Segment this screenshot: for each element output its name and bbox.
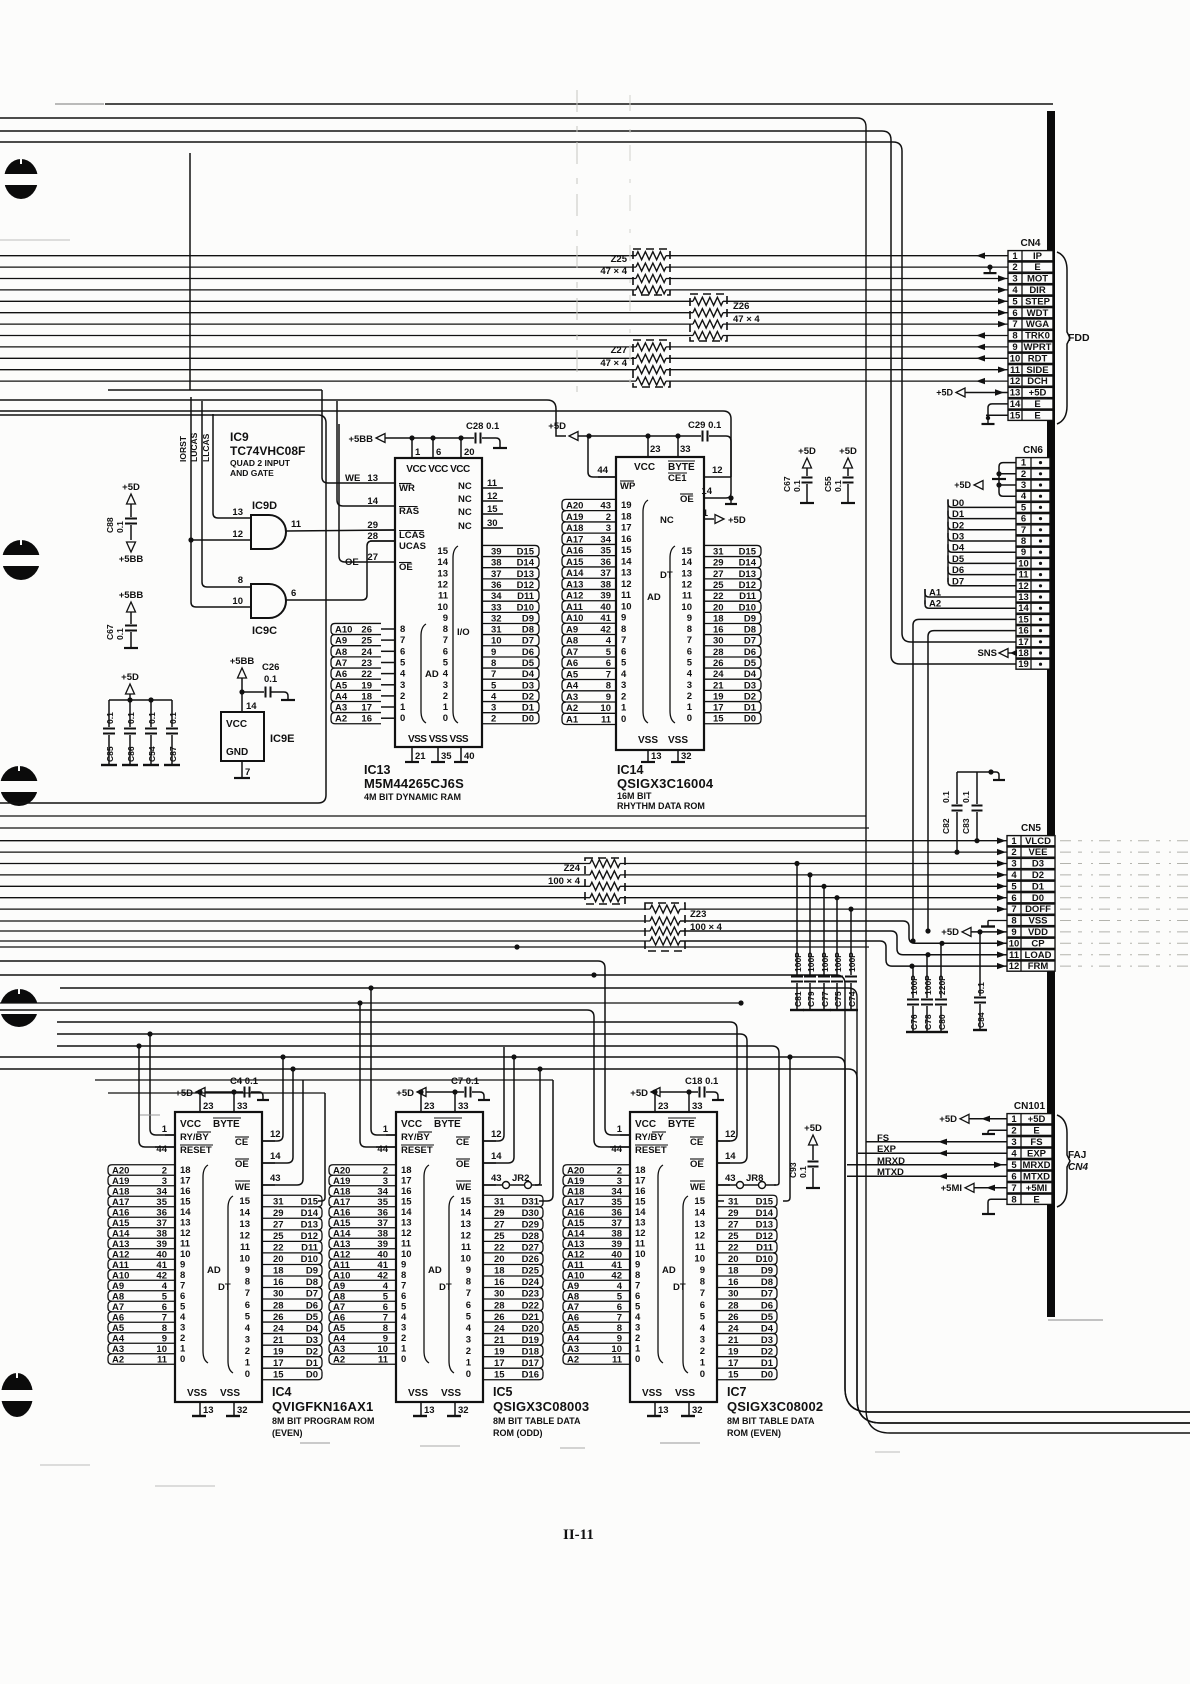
svg-text:WE: WE: [690, 1182, 705, 1193]
svg-text:15: 15: [1010, 410, 1021, 421]
svg-text:20: 20: [273, 1254, 284, 1265]
svg-text:10: 10: [694, 1254, 705, 1265]
svg-text:12: 12: [180, 1228, 191, 1239]
wire lower bus y1010 to IC7 pin44 riser: [0, 1010, 630, 1147]
svg-text:11: 11: [157, 1355, 168, 1366]
svg-text:19: 19: [728, 1346, 739, 1357]
svg-text:3: 3: [491, 703, 496, 714]
svg-text:39: 39: [491, 547, 502, 558]
svg-text:11: 11: [695, 1242, 706, 1253]
svg-text:100 × 4: 100 × 4: [548, 876, 581, 887]
svg-text:VCC VCC VCC: VCC VCC VCC: [406, 464, 470, 475]
svg-text:A2: A2: [335, 714, 347, 725]
svg-text:D0: D0: [952, 498, 964, 509]
svg-text:10: 10: [621, 601, 632, 612]
svg-text:CN6: CN6: [1023, 445, 1043, 456]
svg-text:10: 10: [401, 1249, 412, 1260]
ground on CN6 pin2 node: [992, 478, 1006, 480]
and-gate IC9C: [251, 584, 286, 618]
svg-text:SNS: SNS: [977, 648, 997, 659]
svg-text:VCC: VCC: [180, 1119, 201, 1130]
svg-text:10: 10: [377, 1344, 388, 1355]
svg-text:NC: NC: [458, 521, 472, 532]
svg-text:VLCD: VLCD: [1025, 836, 1051, 847]
svg-text:1: 1: [687, 702, 693, 713]
svg-text:0: 0: [245, 1369, 250, 1380]
svg-text:15: 15: [460, 1196, 471, 1207]
svg-text:40: 40: [156, 1250, 167, 1261]
svg-text:33: 33: [680, 444, 691, 455]
IC5 data pins tags: [483, 1194, 539, 1196]
wire long bus y816: [0, 815, 866, 817]
svg-text:7: 7: [162, 1313, 167, 1324]
svg-text:4: 4: [1011, 1148, 1017, 1159]
svg-text:6: 6: [245, 1300, 250, 1311]
svg-text:0.1: 0.1: [147, 712, 157, 724]
svg-text:A3: A3: [112, 1344, 124, 1355]
svg-text:8M BIT PROGRAM ROM: 8M BIT PROGRAM ROM: [272, 1416, 375, 1426]
wire riser IC7 D15 stub: [717, 1200, 724, 1202]
svg-text:D1: D1: [522, 703, 535, 714]
wire LUCAS vertical to gate input 8: [202, 401, 251, 587]
svg-text:A4: A4: [567, 1334, 580, 1345]
svg-text:A14: A14: [566, 568, 584, 579]
svg-text:A7: A7: [335, 658, 347, 669]
svg-text:4: 4: [687, 669, 693, 680]
svg-text:10: 10: [239, 1254, 250, 1265]
svg-text:A16: A16: [112, 1208, 129, 1219]
svg-text:13: 13: [621, 568, 632, 579]
svg-text:MOT: MOT: [1027, 274, 1048, 285]
svg-text:5: 5: [1011, 881, 1017, 892]
svg-text:9: 9: [245, 1265, 250, 1276]
svg-text:A19: A19: [567, 1176, 584, 1187]
svg-text:Z27: Z27: [611, 345, 627, 356]
svg-text:8: 8: [491, 658, 496, 669]
svg-text:D6: D6: [522, 647, 534, 658]
svg-text:CN5: CN5: [1021, 823, 1041, 834]
svg-text:14: 14: [694, 1208, 705, 1219]
resistor network Z25 47x4: [633, 249, 670, 295]
svg-text:3: 3: [383, 1176, 388, 1187]
svg-text:32: 32: [692, 1405, 703, 1416]
svg-text:+5BB: +5BB: [119, 590, 144, 601]
wires CN6 A1 A2 into pins 13-14: [925, 589, 1016, 597]
wire stair to CN5 pin10 CP: [0, 920, 650, 922]
svg-text:31: 31: [728, 1197, 739, 1208]
svg-text:43: 43: [270, 1173, 281, 1184]
svg-text:D16: D16: [522, 1370, 539, 1381]
svg-text:34: 34: [600, 534, 611, 545]
svg-text:IP: IP: [1033, 251, 1043, 262]
svg-text:RDT: RDT: [1028, 353, 1048, 364]
capacitors C82 C83 0.1 to ground: [954, 850, 959, 855]
svg-text:18: 18: [635, 1165, 646, 1176]
svg-text:10: 10: [460, 1254, 471, 1265]
svg-text:D10: D10: [301, 1254, 318, 1265]
svg-text:A10: A10: [333, 1271, 350, 1282]
svg-text:38: 38: [491, 558, 502, 569]
wire top bus line 1: [105, 103, 1053, 105]
svg-text:C75: C75: [833, 991, 843, 1007]
svg-text:CN4: CN4: [1020, 238, 1040, 249]
svg-text:12: 12: [401, 1228, 412, 1239]
svg-text:VCC: VCC: [634, 462, 655, 473]
svg-text:4M BIT DYNAMIC RAM: 4M BIT DYNAMIC RAM: [364, 792, 461, 802]
svg-text:D12: D12: [517, 580, 534, 591]
svg-text:C29 0.1: C29 0.1: [688, 420, 722, 431]
binder hole mark 4: [0, 989, 38, 1027]
svg-text:12: 12: [460, 1231, 471, 1242]
svg-text:8: 8: [1011, 916, 1016, 927]
svg-text:IC7: IC7: [727, 1385, 747, 1399]
svg-text:7: 7: [443, 635, 448, 646]
svg-text:9: 9: [383, 1334, 388, 1345]
svg-text:2: 2: [443, 691, 448, 702]
svg-text:A13: A13: [333, 1239, 350, 1250]
svg-text:11: 11: [601, 714, 612, 725]
svg-text:1: 1: [1012, 251, 1018, 262]
svg-text:OE: OE: [235, 1159, 249, 1170]
svg-text:A15: A15: [566, 557, 584, 568]
svg-text:A5: A5: [566, 669, 579, 680]
svg-text:A10: A10: [112, 1271, 129, 1282]
svg-text:D7: D7: [952, 576, 964, 587]
svg-text:14: 14: [621, 556, 632, 567]
svg-text:1: 1: [180, 1344, 186, 1355]
svg-text:CE: CE: [690, 1137, 703, 1148]
svg-text:7: 7: [700, 1288, 705, 1299]
svg-text:4: 4: [700, 1323, 706, 1334]
svg-text:3: 3: [606, 523, 611, 534]
svg-text:QVIGFKN16AX1: QVIGFKN16AX1: [272, 1399, 373, 1414]
resistor network Z24 100x4: [585, 858, 625, 904]
svg-text:14: 14: [725, 1151, 736, 1162]
svg-text:8: 8: [700, 1277, 705, 1288]
svg-text:25: 25: [728, 1231, 739, 1242]
wire band line to CN5 pin7 DOFF: [0, 908, 650, 910]
svg-text:6: 6: [687, 646, 692, 657]
svg-text:20: 20: [464, 447, 475, 458]
svg-text:11: 11: [378, 1355, 389, 1366]
svg-text:C4 0.1: C4 0.1: [230, 1076, 259, 1087]
svg-text:18: 18: [180, 1165, 191, 1176]
svg-text:38: 38: [377, 1229, 388, 1240]
svg-text:WE: WE: [235, 1182, 250, 1193]
svg-text:2: 2: [617, 1166, 622, 1177]
svg-text:6: 6: [400, 646, 405, 657]
svg-text:D7: D7: [761, 1289, 773, 1300]
svg-text:+5MI: +5MI: [1026, 1183, 1047, 1194]
svg-text:26: 26: [728, 1312, 739, 1323]
wire lower bus y1057 page exit: [0, 1057, 1190, 1412]
svg-text:LCAS: LCAS: [399, 530, 425, 541]
svg-text:13: 13: [1010, 388, 1021, 399]
svg-text:220P: 220P: [937, 975, 947, 995]
svg-text:19: 19: [494, 1346, 505, 1357]
svg-text:14: 14: [701, 486, 712, 497]
svg-text:25: 25: [713, 580, 724, 591]
svg-text:D13: D13: [756, 1220, 773, 1231]
svg-text:C87: C87: [168, 746, 178, 762]
svg-text:A9: A9: [567, 1281, 579, 1292]
svg-text:BYTE: BYTE: [434, 1119, 461, 1130]
svg-text:17: 17: [1018, 637, 1029, 648]
svg-text:2: 2: [1012, 262, 1017, 273]
svg-text:15: 15: [273, 1370, 284, 1381]
svg-text:D15: D15: [756, 1197, 774, 1208]
svg-text:A1: A1: [929, 588, 942, 599]
IC4 address pins A20-A2 tags: [112, 1164, 175, 1166]
svg-text:6: 6: [700, 1300, 705, 1311]
svg-text:D3: D3: [306, 1335, 318, 1346]
svg-text:16: 16: [180, 1186, 191, 1197]
wire riser IC4 CE: [262, 1057, 283, 1141]
wire IC9D output pin11 to IC13 LCAS: [286, 530, 395, 531]
svg-text:A20: A20: [566, 501, 583, 512]
IC13 left control pins WR RAS LCAS UCAS OE: [370, 482, 395, 484]
wire FDD line into CN4 pin4: [0, 289, 636, 291]
svg-text:2: 2: [700, 1346, 705, 1357]
svg-text:17: 17: [621, 523, 632, 534]
wire lower bus y1034 to IC7 OE: [57, 1034, 747, 1163]
svg-text:0: 0: [443, 713, 448, 724]
svg-text:E: E: [1034, 262, 1040, 273]
svg-text:0.1: 0.1: [798, 1166, 808, 1178]
svg-text:IC14: IC14: [617, 763, 643, 777]
svg-text:8M BIT TABLE DATA: 8M BIT TABLE DATA: [493, 1416, 581, 1426]
svg-text:4: 4: [606, 636, 612, 647]
svg-text:FRM: FRM: [1028, 961, 1049, 972]
svg-text:19: 19: [713, 692, 724, 703]
wire FDD line into CN4 pin5: [0, 300, 693, 302]
svg-text:4: 4: [400, 669, 406, 680]
svg-text:32: 32: [458, 1405, 469, 1416]
svg-text:A12: A12: [333, 1250, 350, 1261]
wire lower bus y1069 page exit: [0, 1069, 1190, 1423]
svg-text:100 × 4: 100 × 4: [690, 922, 723, 933]
wire lower bus y1080: [95, 1079, 553, 1081]
svg-text:+5D: +5D: [121, 672, 139, 683]
svg-text:C81: C81: [793, 991, 803, 1007]
svg-text:21: 21: [713, 680, 724, 691]
svg-text:C88: C88: [105, 517, 115, 533]
svg-text:35: 35: [611, 1197, 622, 1208]
svg-text:RAS: RAS: [399, 506, 419, 517]
svg-text:16: 16: [713, 625, 724, 636]
svg-text:5: 5: [245, 1311, 251, 1322]
svg-text:WDT: WDT: [1027, 308, 1049, 319]
svg-text:A2: A2: [112, 1355, 124, 1366]
svg-text:WGA: WGA: [1026, 319, 1049, 330]
heavy page-edge bus bar: [1047, 111, 1055, 1317]
svg-text:WR: WR: [399, 483, 415, 494]
svg-text:1: 1: [1011, 836, 1017, 847]
svg-text:3: 3: [635, 1323, 640, 1334]
IC13 VSS pins 21 35 40 with grounds: [411, 747, 413, 762]
svg-text:3: 3: [617, 1176, 622, 1187]
svg-text:+5D: +5D: [1029, 388, 1047, 399]
svg-text:7: 7: [400, 635, 405, 646]
svg-text:A19: A19: [333, 1176, 350, 1187]
svg-text:4: 4: [621, 669, 627, 680]
svg-text:AD: AD: [425, 669, 439, 680]
wire band line to CN5 pin1 VLCD: [0, 840, 1007, 842]
IC14 AD bracket: [643, 500, 648, 723]
svg-text:7: 7: [1011, 904, 1016, 915]
svg-text:12: 12: [725, 1129, 736, 1140]
svg-text:29: 29: [273, 1208, 284, 1219]
svg-text:D31: D31: [522, 1197, 540, 1208]
svg-text:41: 41: [611, 1260, 622, 1271]
svg-text:D5: D5: [306, 1312, 319, 1323]
svg-text:38: 38: [156, 1229, 167, 1240]
svg-text:0.1: 0.1: [105, 712, 115, 724]
svg-text:14: 14: [1010, 399, 1021, 410]
svg-text:19: 19: [621, 500, 632, 511]
svg-text:5: 5: [617, 1292, 623, 1303]
wire CN6 pin15: [913, 619, 1016, 941]
svg-text:16: 16: [401, 1186, 412, 1197]
svg-text:1: 1: [617, 1124, 623, 1135]
svg-text:7: 7: [383, 1313, 388, 1324]
svg-text:44: 44: [156, 1144, 167, 1155]
svg-text:7: 7: [245, 767, 250, 778]
ground on CN101 pin2: [988, 1130, 1007, 1134]
IC4 data pins tags: [262, 1194, 318, 1196]
svg-text:VSS: VSS: [187, 1388, 207, 1399]
ground on CN101 pin8: [988, 1199, 1007, 1214]
svg-text:42: 42: [156, 1271, 167, 1282]
wire IORST vertical to gate inputs: [191, 397, 251, 607]
svg-text:ROM (EVEN): ROM (EVEN): [727, 1428, 781, 1438]
svg-text:1: 1: [621, 703, 627, 714]
svg-text:C74: C74: [847, 991, 857, 1007]
svg-text:+5D: +5D: [798, 446, 816, 457]
svg-text:9: 9: [180, 1260, 185, 1271]
svg-text:VEE: VEE: [1028, 847, 1047, 858]
svg-text:13: 13: [437, 568, 448, 579]
wire CN4 pin14 E to ground: [988, 404, 1008, 418]
svg-text:31: 31: [494, 1197, 505, 1208]
wire FDD line into CN4 pin7: [0, 323, 693, 325]
svg-text:4: 4: [466, 1323, 472, 1334]
svg-text:24: 24: [713, 669, 724, 680]
svg-text:16: 16: [621, 534, 632, 545]
svg-text:13: 13: [635, 1218, 646, 1229]
svg-text:VSS: VSS: [675, 1388, 695, 1399]
svg-text:A11: A11: [567, 1260, 585, 1271]
svg-text:16M BIT: 16M BIT: [617, 791, 652, 801]
svg-text:40: 40: [611, 1250, 622, 1261]
IC14 VSS pins 13 32 with grounds: [647, 750, 649, 762]
svg-text:8: 8: [1012, 331, 1017, 342]
svg-text:C85: C85: [105, 746, 115, 762]
svg-text:D12: D12: [301, 1231, 318, 1242]
svg-text:D25: D25: [522, 1266, 540, 1277]
svg-text:17: 17: [713, 703, 724, 714]
wire CE1 line y411: [0, 411, 731, 477]
svg-text:D4: D4: [522, 669, 535, 680]
svg-text:E: E: [1033, 1125, 1039, 1136]
svg-text:36: 36: [600, 557, 611, 568]
svg-text:D12: D12: [739, 580, 756, 591]
svg-text:AD: AD: [647, 592, 661, 603]
svg-text:D0: D0: [761, 1370, 773, 1381]
svg-text:9: 9: [491, 647, 496, 658]
svg-text:100P: 100P: [909, 975, 919, 995]
svg-text:6: 6: [606, 658, 611, 669]
svg-text:13: 13: [651, 751, 662, 762]
svg-text:A20: A20: [567, 1166, 584, 1177]
wire lower bus y961 to IC7 pin1 riser: [0, 961, 630, 1135]
svg-text:32: 32: [491, 613, 502, 624]
IC14 DT bracket: [670, 546, 675, 723]
svg-text:8: 8: [401, 1270, 406, 1281]
ic IC13 M5M44265CJ6S body: [395, 458, 482, 747]
svg-text:DOFF: DOFF: [1025, 904, 1051, 915]
wire band line to CN5 pin6 D0: [0, 897, 590, 899]
svg-text:C86: C86: [126, 746, 136, 762]
svg-text:6: 6: [1011, 1171, 1016, 1182]
svg-text:RHYTHM DATA ROM: RHYTHM DATA ROM: [617, 801, 705, 811]
svg-text:A3: A3: [335, 703, 347, 714]
svg-text:+5D: +5D: [728, 515, 746, 526]
wire lower bus y1003: [0, 1002, 741, 1004]
svg-text:A7: A7: [112, 1302, 124, 1313]
svg-text:8: 8: [162, 1323, 167, 1334]
svg-text:34: 34: [491, 591, 502, 602]
svg-text:18: 18: [273, 1266, 284, 1277]
svg-text:D6: D6: [952, 565, 964, 576]
svg-text:I/O: I/O: [457, 627, 470, 638]
svg-text:30: 30: [494, 1289, 505, 1300]
svg-text:C7 0.1: C7 0.1: [451, 1076, 480, 1087]
svg-text:4: 4: [401, 1312, 407, 1323]
svg-text:D3: D3: [952, 532, 964, 543]
svg-text:MTXD: MTXD: [1023, 1171, 1050, 1182]
svg-text:A12: A12: [112, 1250, 129, 1261]
wire stair to CN5 pin12 FRM: [0, 940, 650, 942]
svg-text:C79: C79: [806, 991, 816, 1007]
IC14 address pins A20-A1 with tags: [566, 498, 616, 500]
svg-text:A16: A16: [333, 1208, 350, 1219]
svg-text:A15: A15: [112, 1218, 130, 1229]
svg-text:FS: FS: [1030, 1137, 1042, 1148]
svg-text:18: 18: [401, 1165, 412, 1176]
svg-text:A5: A5: [112, 1323, 125, 1334]
svg-text:8: 8: [1011, 1194, 1016, 1205]
IC13 address pins A10-A2 with tags: [335, 622, 381, 624]
svg-text:9: 9: [617, 1334, 622, 1345]
svg-text:CN4: CN4: [1068, 1162, 1088, 1173]
svg-text:0: 0: [621, 714, 626, 725]
svg-text:OE: OE: [399, 562, 413, 573]
svg-text:23: 23: [203, 1101, 214, 1112]
svg-text:5: 5: [1021, 502, 1027, 513]
svg-text:33: 33: [458, 1101, 469, 1112]
svg-text:A6: A6: [566, 658, 578, 669]
svg-text:+5D: +5D: [630, 1088, 648, 1099]
svg-text:D1: D1: [1032, 881, 1045, 892]
svg-text:C76: C76: [909, 1014, 919, 1030]
IC5 RY/BY RESET pins 1 44: [386, 1134, 396, 1136]
svg-text:7: 7: [1012, 319, 1017, 330]
svg-text:VSS: VSS: [441, 1388, 461, 1399]
svg-text:+5BB: +5BB: [230, 656, 255, 667]
svg-text:16: 16: [728, 1277, 739, 1288]
svg-text:RY/BY: RY/BY: [635, 1132, 664, 1143]
